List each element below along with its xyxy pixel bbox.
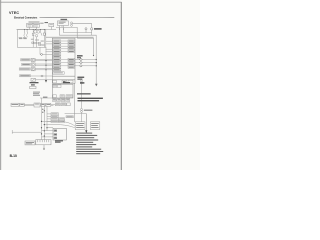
small fuse rect [43,30,45,34]
bottom connector box [53,128,66,140]
sensor 2 connector [31,63,35,66]
fuse box [58,21,69,26]
block bottom marks [39,44,41,45]
inline connector circle [91,28,93,30]
small pin column boxes [51,113,73,123]
page background [0,0,200,170]
left pin cell 2 [54,134,57,136]
junction dot row1 [96,59,97,60]
connector label text [84,110,93,111]
bus wire middle [64,29,92,32]
wire with pointer [40,47,52,54]
header box stub 2 [35,27,37,29]
output diamond 3 [80,65,83,67]
long thin label box [66,116,73,118]
middle connecting wires [61,41,68,66]
wire down [81,84,83,108]
dark label 2 [31,84,35,85]
output diamond 2 [80,62,83,64]
rail junction dots [24,29,25,30]
svg-text:B-10: B-10 [10,154,17,158]
connector circles mid [81,108,83,110]
sensor 3 label [19,68,30,70]
header box 1 [27,23,33,27]
drop wire a [41,98,43,140]
small pin column wires [47,113,51,115]
wire row4 [46,48,53,50]
injector row texts [53,98,56,101]
fuse label 1 [19,36,23,39]
fuse box stub [61,26,63,28]
branch wire into box row1 [47,127,53,129]
switch [40,30,42,36]
svg-text:VTEC: VTEC [9,11,19,15]
bottom band line [52,75,75,77]
junction dot row3 [96,65,97,66]
inline connector circle 2 [85,28,87,30]
relay circle 2 [37,30,40,33]
bottom pin strip connector [36,140,51,149]
sensor 3 connector [31,68,35,71]
lower box bottom pin 2 [60,95,65,98]
small label right of header boxes [40,23,43,24]
fuse coil 1 [24,30,25,38]
drop wire c [46,106,48,131]
harness label dark [63,82,70,83]
fuse coil 2 [27,30,28,38]
label box right [90,122,99,130]
sensor 1 label [21,59,31,61]
pin column texts [52,112,58,115]
junction dot on lower bus [93,55,94,56]
lower box bottom pin 1 [53,95,57,98]
table top second line [46,36,94,38]
long label text [54,71,63,74]
lower box outline [52,84,73,98]
service label box 2 [20,103,24,106]
fuse symbol (two circles) [71,22,73,24]
diode D [32,30,34,34]
bus wire upper [60,29,97,84]
header box 2 [33,23,39,27]
injector dark text line 2 [78,100,100,101]
service connector hatched [34,103,40,107]
lower box top pin 1 [53,85,57,88]
small code text [43,97,47,98]
bottom label text [26,141,34,144]
lower box top pin 2 [57,85,61,88]
bus junction dot 3 [45,69,46,70]
output wire 1 [75,59,96,61]
left border line [0,0,2,170]
bottom band text [63,80,66,83]
wire table edge down to label box [74,84,76,123]
svg-text:Electrical Connectors: Electrical Connectors [14,16,38,20]
small connector label text [45,22,49,23]
bottom label box [25,141,35,145]
component box [31,78,36,81]
wire below connector [91,30,93,35]
long bottom wire [12,131,41,133]
connector circles top [81,80,83,82]
dark pin marks [54,130,56,138]
sensor 3 wires [35,68,52,70]
bus junction dot 1 [45,60,46,61]
sensor 2 label [22,63,31,65]
output label dark [77,55,83,56]
right pin column boxes [68,40,75,68]
pcm label dark line2 [77,79,82,80]
row4 wire [31,75,53,77]
bus wire lower [77,38,93,55]
row4 label [20,75,31,77]
fusebox lower stub 1 [59,26,61,29]
sensor 2 wires [35,63,52,65]
sensor 1 wires [35,58,52,60]
lower box texts [54,85,57,88]
pointer diamond [40,53,43,55]
bus end arrow [45,80,47,83]
branch wire into box row4 [42,136,54,138]
table outer box [52,38,75,83]
wire to table [36,79,53,81]
junction dots cluster 1 [42,109,43,110]
fusebox lower stub 2 [63,26,65,29]
wire stub [85,32,87,34]
fuse label 2 [23,36,27,39]
sensor 1 connector [31,58,35,61]
right pin texts [69,41,74,68]
ground bus vertical [45,47,47,80]
strip drop wire [43,145,45,148]
pcm label dark line1 [77,77,84,78]
wire row2 [46,43,53,45]
header box stub 1 [29,27,31,29]
long label box in table [53,72,64,75]
main rail [16,29,56,31]
down arrow between boxes [85,114,87,131]
left stub [11,130,13,134]
junction dot row2 [96,62,97,63]
relay box stub [50,27,52,30]
lower box bottom pin 3 [66,95,73,98]
block outline [18,30,46,48]
wire down to label box [81,113,83,123]
output wire 2 [75,62,96,64]
second rail wire [56,27,77,38]
relay circle 1 [34,30,37,33]
strip drop terminal [43,148,45,150]
dark label 1 [30,82,39,83]
margin area right of page edge [122,0,200,170]
bus end tick [95,84,98,87]
dark label below tall box [55,140,63,141]
small circle component [35,35,37,37]
bottom band box 1 [53,80,57,83]
row4 pointer diamond [41,75,43,77]
left pin texts [54,41,60,71]
branch wire to arc 2 [44,125,75,128]
small relay box [49,23,54,26]
junction dots diagonal [41,121,42,122]
label box right texts [91,123,99,128]
bus junction dot 2 [45,65,46,66]
solenoid valve label (dark) [94,28,102,29]
bottom band box 3 [68,80,73,83]
service label box 1 [11,103,19,106]
branch wire into box row2 [42,130,54,132]
top border line [0,1,122,3]
branch wire into box row3 [44,133,53,135]
wire: fuse to right bus [73,24,92,28]
left pin cell 3 [54,137,57,139]
harness label dark right [80,82,84,83]
label box left [75,122,85,130]
label text above header boxes [29,22,40,23]
bottom band line 2 [52,79,75,81]
service boxes right [41,103,45,106]
service texts [12,103,19,106]
wire to down arrow [65,113,87,115]
branch wire to arc 1 [42,121,76,126]
label box left texts [76,123,84,128]
service row boxes far right [55,103,60,106]
dark text right of lower box [77,93,91,94]
label above fuse box [61,19,68,20]
label box lower [30,87,36,89]
subtitle rule line [40,16,115,18]
output diamond 1 [80,58,83,60]
wire row1 [46,40,53,42]
small component marks row [32,42,34,44]
bottom band box 2 [62,80,67,83]
wire row5 [46,51,53,53]
right page edge line [120,2,122,170]
left pin column boxes [53,40,61,71]
note text block [33,92,40,96]
service wires [24,103,34,105]
wire through connector 2 [85,26,87,28]
left pin cell 1 [54,130,57,132]
injector dark text line 1 [78,98,103,99]
wire into lower box [40,97,52,99]
tiny label bars in block [31,38,34,41]
drop wire b [43,104,45,139]
output wire 3 [75,65,96,67]
